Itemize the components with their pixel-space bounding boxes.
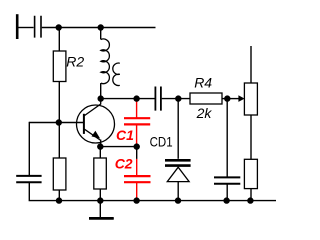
wire base [29, 122, 84, 124]
wire potentiometer to resistor [250, 115, 252, 159]
wire inductor bottom to collector node [100, 83, 102, 99]
junction nodes [56, 24, 254, 204]
node: rail R2 column [56, 197, 62, 203]
node: rail C2 [133, 197, 139, 203]
wire capacitor to node A [42, 27, 59, 29]
wire cap branch (right mid) [226, 99, 228, 177]
node: collector [98, 95, 104, 101]
wire resistor to ground rail [58, 190, 60, 201]
potentiometer wiper arrowhead [238, 95, 244, 102]
capacitor C2 (red) [124, 159, 151, 199]
node: C1 top [133, 95, 139, 101]
wire base node down to lower resistor [58, 123, 60, 159]
resistor (lower bias) [53, 158, 66, 190]
node: rail pot [247, 197, 253, 203]
inductor secondary winding [113, 63, 120, 86]
wire emitter node to C2 node [100, 146, 136, 148]
potentiometer R (right) [244, 83, 257, 115]
node: R4 right [224, 95, 230, 101]
node: rail varactor [175, 197, 181, 203]
resistor R2 [53, 51, 66, 82]
node: rail emitter column [97, 197, 103, 203]
capacitor C1 (red) [124, 100, 150, 146]
node: emitter [97, 143, 103, 149]
transistor emitter arrow [92, 131, 101, 139]
wire top rail [59, 27, 156, 29]
svg-text:R2: R2 [66, 54, 84, 70]
wire resistor to rail [250, 189, 252, 201]
wire to R4 [162, 98, 190, 100]
wire capacitor to rail [29, 183, 59, 201]
resistor (emitter) [94, 158, 107, 189]
transistor collector lead [84, 99, 100, 116]
svg-text:C1: C1 [116, 127, 134, 143]
inductor L1 [101, 39, 110, 84]
wire cap to rail [226, 184, 228, 200]
resistor (right lower) [244, 159, 257, 188]
capacitor C (input coupling) [35, 16, 41, 38]
wire left branch down [28, 122, 30, 175]
capacitor (coupling, mid) [155, 87, 161, 111]
node: C2 top [134, 143, 140, 149]
wire collector rail [101, 98, 155, 100]
wire emitter to resistor [99, 147, 101, 158]
varactor CD1 cathode bars [165, 160, 191, 165]
capacitor (left bypass) [16, 176, 41, 182]
capacitor (right bypass) [214, 177, 240, 183]
node: base [56, 119, 62, 125]
transistor emitter lead [84, 129, 100, 146]
node: input/top [56, 24, 62, 30]
wire wiper arrow [227, 98, 239, 100]
wire inductor top [100, 28, 102, 40]
svg-text:R4: R4 [194, 74, 212, 90]
svg-text:C2: C2 [115, 156, 133, 172]
wire node A down to R2 [58, 28, 60, 52]
varactor CD1 triangle [167, 167, 189, 181]
ground [89, 201, 114, 219]
input terminal bar [16, 14, 19, 39]
wire ground rail [59, 200, 276, 202]
wire potentiometer top [250, 46, 252, 83]
wire R2 to base node [58, 82, 60, 123]
node: rail cap [223, 197, 229, 203]
node: R4 left [175, 95, 181, 101]
wire varactor top [177, 99, 179, 159]
wire C2 black top lead [136, 147, 138, 159]
wire resistor to rail [99, 189, 101, 201]
resistor R4 [190, 93, 222, 104]
transistor Q1 circle [77, 105, 115, 143]
wire varactor to rail [177, 182, 179, 201]
transistor base bar [83, 114, 85, 134]
wire input to capacitor [18, 27, 33, 29]
node: inductor top [98, 24, 104, 30]
svg-text:2k: 2k [196, 105, 213, 121]
svg-text:CD1: CD1 [150, 133, 173, 149]
wire R4 to node [222, 98, 230, 100]
